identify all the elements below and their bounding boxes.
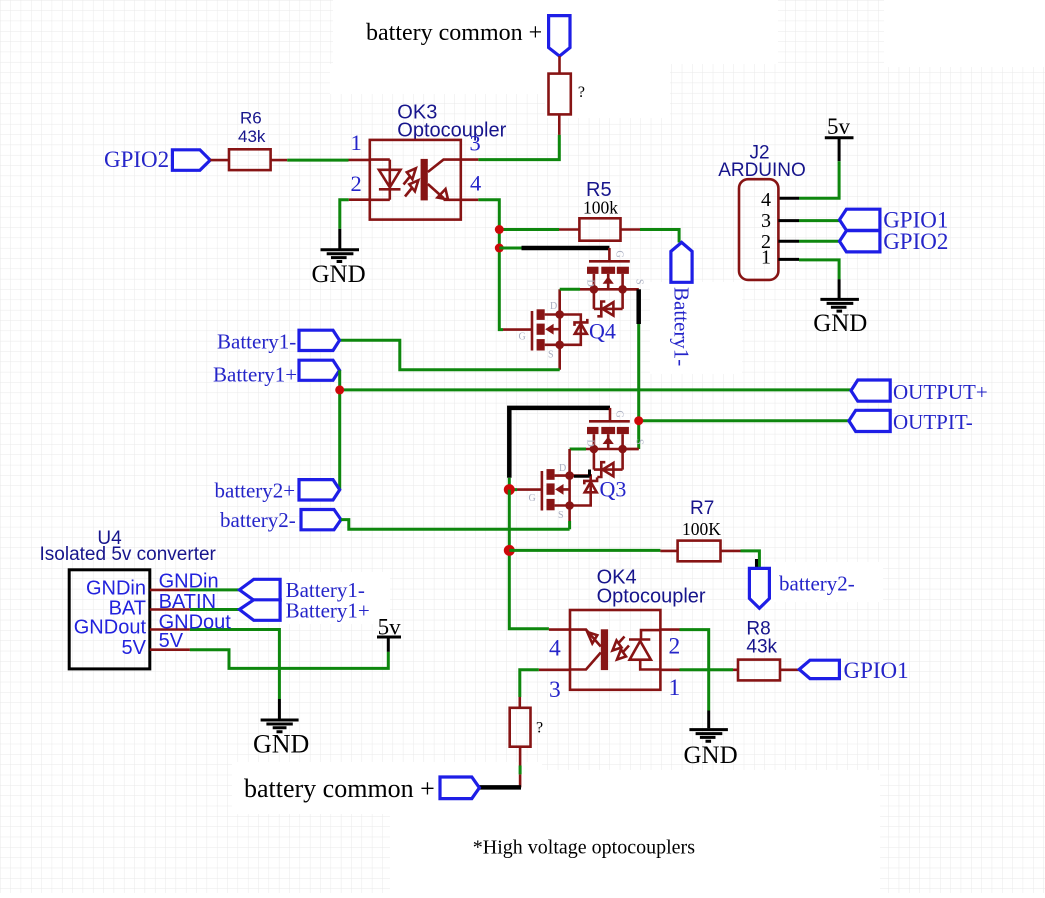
svg-text:1: 1: [761, 247, 771, 269]
svg-text:D: D: [585, 280, 596, 287]
wire U4 GNDout to GND: [150, 628, 190, 631]
flag battery2- (pointing down): [749, 568, 769, 608]
svg-text:1: 1: [669, 675, 681, 701]
svg-text:GPIO1: GPIO1: [844, 658, 909, 683]
wire OK3 pin 2 to GND: [349, 198, 370, 201]
svg-text:battery2-: battery2-: [220, 508, 296, 532]
power 5v (middle): [377, 615, 401, 652]
wire J2 pin 1 to GND: [778, 258, 799, 261]
wire J2 pin 3 to GPIO1: [778, 219, 799, 222]
svg-text:battery common +: battery common +: [244, 774, 435, 803]
svg-text:43k: 43k: [238, 127, 266, 146]
svg-text:GND: GND: [813, 310, 867, 337]
wire OK4 pin 1 to R8: [660, 668, 679, 671]
svg-text:2: 2: [669, 633, 681, 659]
svg-text:GPIO2: GPIO2: [883, 229, 948, 254]
wire OK4 pin 2 to GND: [660, 628, 679, 631]
body diode Q4 upper: [603, 302, 614, 315]
wire Battery1+ vertical to battery2+: [338, 370, 341, 490]
wire R7 to battery2- flag: [721, 550, 741, 553]
resistor R8: [738, 660, 780, 681]
svg-text:3: 3: [761, 210, 771, 232]
flag battery common + (top, pointing down): [549, 16, 570, 57]
svg-text:S: S: [558, 510, 564, 521]
optocoupler OK4: [549, 567, 706, 703]
flag battery common + (bottom, pointing right): [440, 777, 479, 799]
svg-text:Q4: Q4: [589, 319, 616, 344]
junction: [504, 545, 515, 556]
wire U4 GNDin to Battery1-: [150, 589, 190, 592]
wire Q4 upper right to output chain: [623, 288, 639, 291]
svg-text:D: D: [585, 440, 596, 447]
transistor Q4 lower MOSFET: [503, 289, 587, 370]
svg-text:S: S: [634, 279, 645, 285]
wire Q3 gate black segment: [509, 408, 610, 478]
wire gate chain down to R7 and OK4: [509, 490, 549, 629]
svg-text:G: G: [529, 493, 536, 504]
wire resistor to OK3 pin 3: [558, 114, 561, 134]
flag Battery1- (pointing up): [671, 242, 692, 282]
flag GPIO1 (pointing left): [799, 660, 839, 678]
flag OUTPIT- (pointing left): [849, 410, 890, 431]
svg-text:Battery1+: Battery1+: [286, 599, 370, 623]
wire OK4 pin 3 to resistor ?: [539, 668, 570, 671]
resistor R7: [678, 541, 721, 562]
photon arrows OK4: [619, 637, 629, 652]
svg-text:*High voltage optocouplers: *High voltage optocouplers: [473, 837, 695, 859]
svg-text:?: ?: [578, 84, 585, 101]
flag GPIO2 (pointing right): [172, 150, 210, 171]
resistor ? (top): [549, 74, 571, 115]
junction: [335, 385, 344, 394]
wire R6 to OK3 pin 1: [271, 159, 288, 162]
svg-text:OUTPIT-: OUTPIT-: [893, 410, 973, 434]
svg-text:GPIO2: GPIO2: [104, 147, 169, 172]
body diode Q3 lower (zener): [585, 482, 597, 492]
svg-text:battery common +: battery common +: [366, 20, 542, 46]
svg-text:4: 4: [761, 189, 771, 211]
wire Q4 drain to green stub: [560, 288, 580, 291]
svg-text:3: 3: [470, 131, 481, 156]
svg-text:43k: 43k: [746, 637, 777, 658]
wire Q4 source to Battery1-: [340, 340, 560, 370]
svg-text:R6: R6: [240, 109, 262, 128]
svg-text:5V: 5V: [159, 630, 184, 652]
IC U4 isolated converter: [40, 528, 217, 669]
resistor R6: [229, 149, 271, 170]
wire resistor to battery common flag: [519, 747, 522, 766]
ground GND (J2): [813, 299, 867, 337]
connector J2 ARDUINO: [718, 143, 806, 280]
svg-text:1: 1: [351, 130, 362, 155]
svg-text:Optocoupler: Optocoupler: [597, 586, 706, 608]
svg-text:BATIN: BATIN: [159, 591, 216, 613]
optocoupler OK3: [351, 102, 507, 220]
phototransistor OK4: [601, 629, 608, 670]
svg-text:100k: 100k: [583, 198, 618, 218]
svg-text:4: 4: [470, 171, 481, 196]
wire J2 pin 2 to GPIO2: [778, 240, 799, 243]
resistor R5: [579, 218, 620, 240]
svg-text:R7: R7: [690, 498, 714, 519]
flag Battery1- (U4, pointing left): [239, 579, 280, 600]
LED of OK3: [379, 170, 401, 188]
svg-text:GNDin: GNDin: [159, 571, 219, 593]
wire 5v to J2 pin 4: [799, 161, 839, 198]
wire GPIO2 to R6: [210, 159, 229, 162]
wire to R5: [499, 228, 559, 231]
svg-text:D: D: [559, 463, 566, 474]
body diode Q4 lower (zener): [575, 324, 587, 334]
svg-text:3: 3: [549, 677, 561, 703]
svg-text:G: G: [614, 411, 625, 418]
svg-text:GNDin: GNDin: [86, 578, 146, 600]
svg-text:GNDout: GNDout: [74, 617, 147, 639]
flag Battery1+ (pointing right): [299, 360, 340, 380]
wire U4 5V to 5v power: [150, 648, 190, 651]
svg-text:battery2-: battery2-: [779, 572, 855, 596]
svg-text:ARDUINO: ARDUINO: [718, 160, 806, 181]
wire gate black segment Q4: [499, 247, 521, 250]
wire OK3 pin 4 to gate chain: [461, 199, 479, 202]
wire R5 to Battery1- flag: [621, 228, 641, 231]
flag Battery1+ (U4, pointing left): [239, 600, 280, 621]
wire flag to resistor: [558, 56, 561, 74]
svg-text:G: G: [614, 251, 625, 258]
wire OUTPIT-: [639, 419, 849, 422]
svg-text:Isolated 5v converter: Isolated 5v converter: [40, 544, 217, 565]
svg-text:4: 4: [549, 635, 561, 661]
svg-text:D: D: [550, 301, 557, 312]
ground GND (OK3): [312, 250, 366, 288]
junction: [495, 225, 504, 234]
flag GPIO2 (J2, pointing left): [840, 231, 880, 252]
junction: [634, 416, 643, 425]
wire U4 BAT to Battery1+: [150, 608, 190, 611]
wire R8 to GPIO1: [780, 668, 799, 671]
phototransistor OK3: [421, 159, 428, 201]
svg-text:GND: GND: [253, 729, 309, 758]
flag OUTPUT+ (pointing left): [851, 380, 890, 401]
wire Q3 upper left stub: [570, 448, 586, 451]
svg-text:Optocoupler: Optocoupler: [397, 120, 506, 142]
svg-text:Q3: Q3: [600, 477, 627, 502]
svg-text:G: G: [519, 332, 526, 343]
flag GPIO1 (J2, pointing left): [840, 209, 880, 230]
photon arrows OK3: [404, 177, 412, 197]
transistor Q3 lower MOSFET: [529, 463, 598, 521]
wire stub (black tick near Q3 drain): [574, 470, 590, 477]
svg-text:Battery1-: Battery1-: [670, 287, 694, 366]
svg-text:5v: 5v: [378, 615, 402, 640]
body diode Q3 upper: [603, 463, 614, 476]
wire Q3 source down: [568, 521, 571, 529]
svg-text:100K: 100K: [682, 519, 721, 539]
resistor ? (bottom): [510, 708, 531, 747]
ground GND (OK4): [684, 730, 738, 769]
svg-text:Battery1-: Battery1-: [217, 330, 296, 354]
ground GND (U4): [253, 720, 309, 758]
svg-text:Battery1+: Battery1+: [213, 363, 297, 387]
wire to R7: [509, 549, 660, 552]
junction: [504, 484, 515, 495]
flag battery2- (left, pointing right): [301, 510, 341, 530]
svg-text:OUTPUT+: OUTPUT+: [893, 380, 988, 404]
wire battery2- to Q3 source: [341, 520, 570, 530]
svg-text:S: S: [548, 350, 554, 361]
svg-text:?: ?: [536, 720, 543, 737]
transistor Q4 upper MOSFET (rotated): [580, 248, 645, 316]
flag battery2+ (pointing right): [299, 480, 340, 500]
svg-text:5V: 5V: [122, 637, 147, 659]
svg-text:GND: GND: [684, 742, 738, 769]
LED of OK4: [640, 630, 659, 669]
flag Battery1- (pointing right): [299, 330, 340, 350]
svg-text:5v: 5v: [827, 114, 851, 139]
svg-text:2: 2: [351, 171, 362, 196]
svg-text:S: S: [634, 439, 645, 445]
svg-text:battery2+: battery2+: [215, 479, 296, 503]
junction: [495, 244, 504, 253]
wire OUTPUT+: [340, 388, 851, 391]
svg-text:GND: GND: [312, 261, 366, 288]
transistor Q3 upper MOSFET (rotated): [580, 408, 645, 477]
power 5v (top right): [825, 114, 854, 161]
